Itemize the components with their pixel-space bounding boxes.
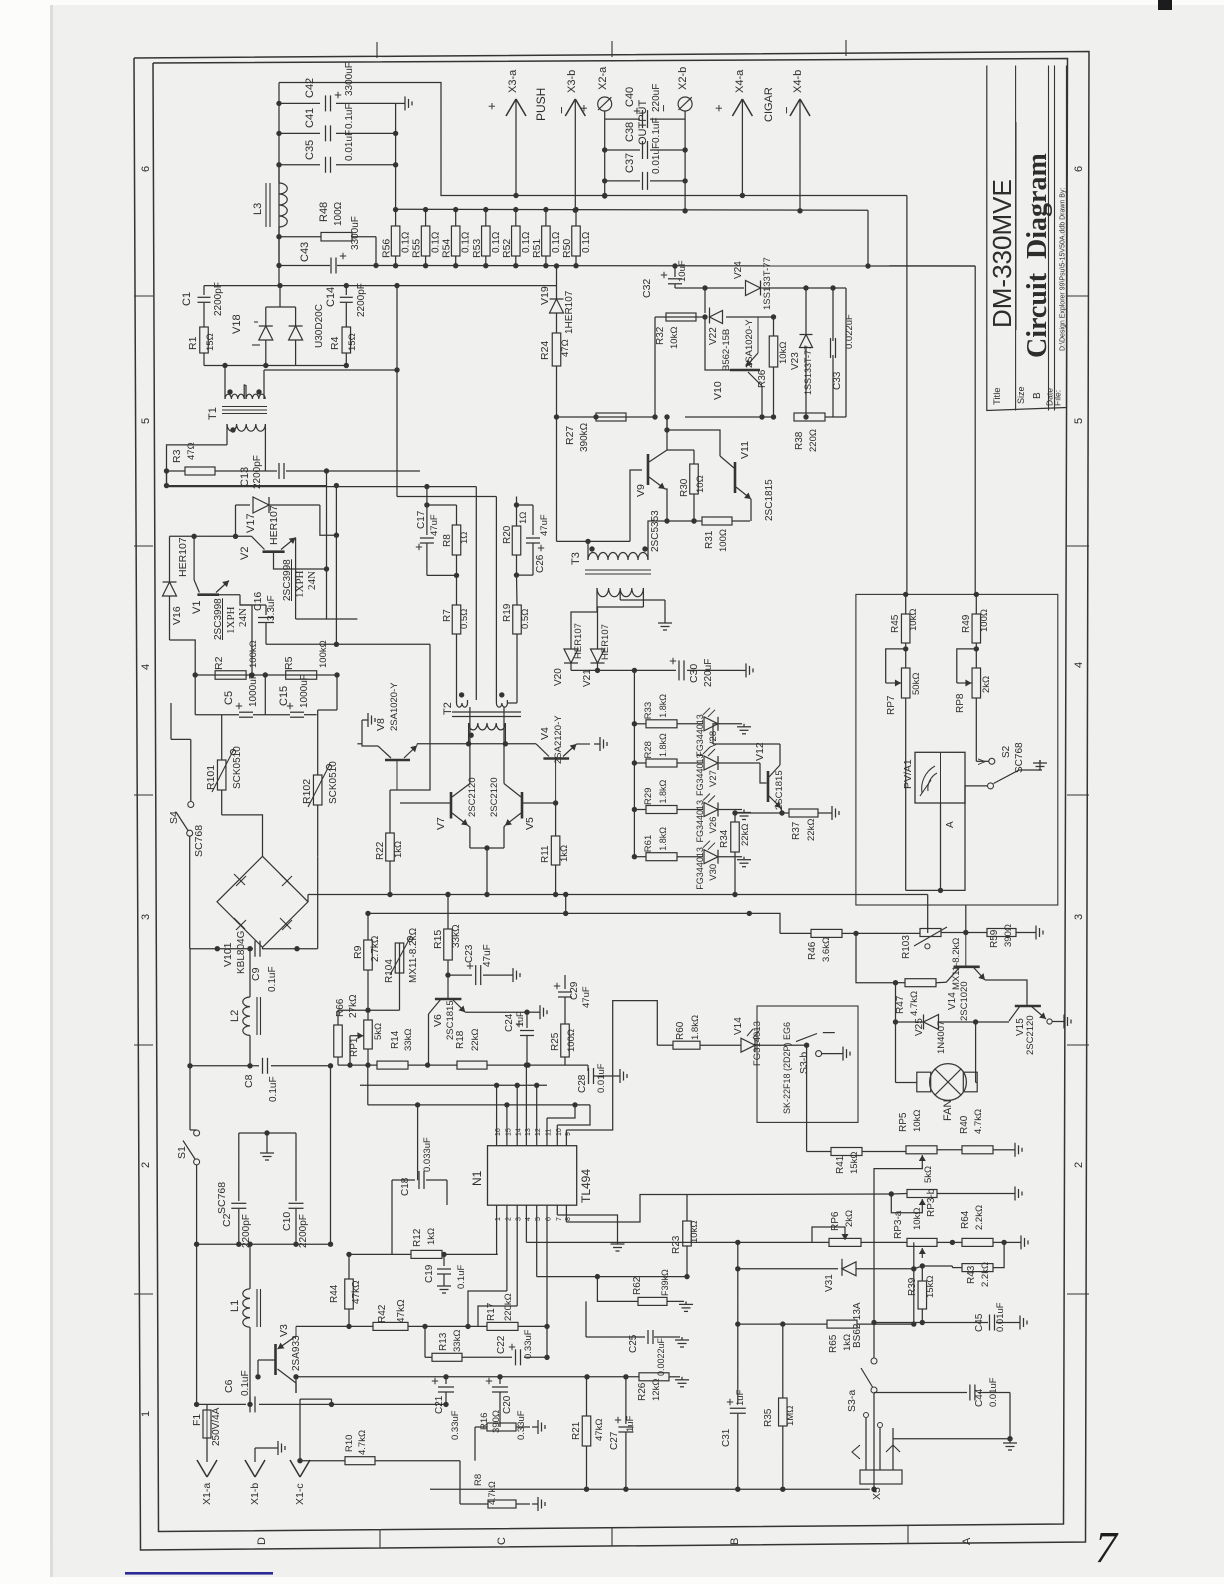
wire left rail 3 — [196, 1244, 198, 1404]
svg-text:C22: C22 — [496, 1335, 507, 1354]
capacitor C2 — [231, 1202, 246, 1204]
svg-text:0.01uF: 0.01uF — [651, 143, 662, 174]
svg-text:V4: V4 — [539, 727, 551, 740]
wire pin15 — [506, 1105, 508, 1138]
svg-text:R60: R60 — [675, 1021, 686, 1040]
resistor R54 — [455, 210, 457, 226]
svg-text:R103: R103 — [901, 935, 912, 959]
capacitor C20 — [499, 1377, 501, 1384]
svg-text:V26: V26 — [708, 817, 719, 834]
wire bus 1104 — [367, 1065, 369, 1105]
resistor R62 — [638, 1297, 667, 1305]
resistor R5 — [286, 671, 317, 680]
svg-text:1N4007: 1N4007 — [936, 1021, 947, 1054]
fuse F1 — [206, 1404, 208, 1410]
svg-text:R61: R61 — [643, 835, 654, 852]
resistor R52 — [515, 210, 517, 226]
zone tick left — [134, 1044, 153, 1046]
ground X1-b — [255, 1447, 272, 1449]
connector X1-c — [299, 1399, 301, 1462]
svg-text:1.8kΩ: 1.8kΩ — [690, 1015, 701, 1040]
svg-text:R28: R28 — [643, 741, 654, 758]
svg-text:1kΩ: 1kΩ — [426, 1228, 437, 1245]
resistor R53 — [485, 210, 487, 226]
svg-text:X3-b: X3-b — [566, 70, 578, 93]
svg-text:4.7kΩ: 4.7kΩ — [973, 1109, 984, 1134]
svg-text:V22: V22 — [708, 327, 719, 345]
svg-text:15Ω: 15Ω — [347, 333, 358, 351]
svg-text:RP7: RP7 — [886, 695, 897, 715]
svg-text:12kΩ: 12kΩ — [651, 1379, 662, 1401]
wire cap row — [194, 675, 196, 715]
wire input left rail — [189, 949, 191, 1066]
svg-text:R1: R1 — [187, 336, 199, 350]
svg-text:1.8kΩ: 1.8kΩ — [658, 733, 668, 757]
wire R46 feed — [749, 913, 780, 933]
svg-text:2SA1020-Y: 2SA1020-Y — [744, 319, 755, 368]
svg-text:2SA2120-Y: 2SA2120-Y — [553, 715, 564, 764]
svg-text:V: V — [977, 758, 988, 765]
svg-text:100Ω: 100Ω — [333, 201, 344, 226]
svg-text:RP5: RP5 — [898, 1112, 909, 1132]
svg-text:2SA1020-Y: 2SA1020-Y — [389, 682, 400, 731]
zone tick left — [134, 545, 153, 547]
resistor R51 — [545, 210, 547, 226]
title block cell line — [1048, 122, 1050, 245]
svg-text:C19: C19 — [424, 1264, 435, 1283]
svg-text:1.8kΩ: 1.8kΩ — [658, 827, 668, 851]
svg-text:V2: V2 — [239, 547, 251, 560]
svg-text:C18: C18 — [400, 1177, 411, 1196]
wire C45 row — [874, 1322, 922, 1324]
diode V16 — [169, 536, 171, 582]
wire output plus rail — [279, 83, 516, 196]
svg-text:C15: C15 — [278, 686, 290, 706]
svg-text:R10: R10 — [344, 1435, 355, 1452]
svg-text:0.0022uF: 0.0022uF — [656, 1337, 666, 1376]
capacitor C45 — [989, 1315, 991, 1331]
wire V6 emitter — [465, 1011, 527, 1013]
resistor R16 — [475, 1426, 487, 1428]
svg-text:4: 4 — [1073, 662, 1085, 668]
resistor R64 — [962, 1238, 993, 1246]
resistor R30 — [693, 450, 695, 464]
svg-text:R20: R20 — [502, 525, 513, 544]
transistor V11 2SC1815 — [734, 462, 737, 493]
svg-text:V23: V23 — [790, 352, 801, 370]
wire V15 base row — [896, 1021, 924, 1023]
wire minus down — [974, 266, 976, 592]
svg-text:+: + — [576, 104, 591, 112]
svg-text:N1: N1 — [470, 1170, 484, 1186]
wire 1242 bus — [738, 1241, 829, 1243]
svg-text:4.7kΩ: 4.7kΩ — [357, 1430, 368, 1455]
resistor R41 — [831, 1148, 862, 1156]
svg-text:File:: File: — [1053, 390, 1063, 406]
svg-text:R11: R11 — [540, 845, 551, 863]
svg-text:R64: R64 — [960, 1210, 971, 1229]
svg-text:Title: Title — [992, 387, 1003, 405]
svg-text:3.6kΩ: 3.6kΩ — [821, 937, 832, 962]
svg-text:47uF: 47uF — [539, 514, 550, 536]
zone tick right — [1067, 545, 1089, 547]
resistor R38 — [794, 413, 825, 421]
svg-text:C29: C29 — [569, 981, 580, 1000]
svg-text:R59: R59 — [989, 929, 1000, 948]
capacitor C19 — [443, 1254, 445, 1266]
resistor R20 — [516, 505, 518, 526]
svg-text:C40: C40 — [624, 87, 636, 107]
capacitor C9 — [254, 941, 256, 957]
wire bridge bottom — [262, 947, 264, 948]
svg-text:A: A — [945, 821, 956, 828]
diode V21 — [597, 642, 599, 649]
title block row line — [1048, 66, 1050, 411]
ground output filter — [396, 102, 399, 104]
resistor R26 — [639, 1373, 669, 1381]
resistor R44 — [348, 1254, 350, 1279]
svg-text:10kΩ: 10kΩ — [908, 609, 919, 631]
wire meter bottom — [940, 803, 942, 890]
capacitor C5 — [239, 711, 253, 713]
wire RP1 bottom rail — [338, 1064, 377, 1066]
resistor R34 — [734, 813, 736, 822]
resistor R11 — [555, 803, 557, 836]
capacitor C38 — [605, 149, 640, 151]
potentiometer RP8 — [972, 668, 981, 698]
svg-text:R26: R26 — [637, 1382, 648, 1401]
svg-text:V17: V17 — [245, 513, 257, 533]
wire C30 line — [571, 669, 676, 671]
svg-text:V14: V14 — [733, 1017, 744, 1035]
svg-text:V30: V30 — [708, 864, 719, 881]
bridge rectifier V101 — [217, 856, 308, 947]
potentiometer RP7 — [901, 668, 910, 698]
wire V3 base — [258, 1359, 276, 1361]
wire pin7 ground — [556, 1212, 558, 1215]
svg-text:Circuit Diagram: Circuit Diagram — [1022, 153, 1053, 358]
capacitor C28 — [565, 1064, 588, 1066]
svg-text:SK-22F18 (2D2P) EG6: SK-22F18 (2D2P) EG6 — [782, 1022, 792, 1114]
svg-text:47Ω: 47Ω — [186, 442, 197, 460]
svg-text:0.01uF: 0.01uF — [995, 1302, 1006, 1332]
svg-text:FG344013: FG344013 — [695, 753, 705, 796]
svg-text:47kΩ: 47kΩ — [594, 1419, 605, 1441]
wire V31 row right — [913, 1242, 915, 1268]
transformer T3 primary — [587, 541, 589, 560]
resistor R25 — [564, 1010, 566, 1024]
resistor R35 — [782, 1324, 784, 1398]
svg-text:V11: V11 — [739, 441, 751, 459]
capacitor C17 — [426, 505, 428, 535]
wire V12 collector — [713, 743, 780, 745]
wire bus894 to R103row — [927, 895, 929, 934]
svg-text:X4-b: X4-b — [792, 70, 804, 93]
svg-text:2SC3998: 2SC3998 — [213, 598, 224, 640]
svg-text:24N: 24N — [306, 571, 318, 590]
wire RP3b row — [687, 1193, 891, 1196]
resistor R59 — [966, 932, 987, 934]
svg-text:7: 7 — [556, 1217, 563, 1221]
svg-text:V12: V12 — [754, 742, 766, 761]
zone tick left — [134, 1293, 153, 1295]
wire rail to snubber — [278, 266, 280, 286]
svg-text:V3: V3 — [278, 1324, 290, 1337]
svg-text:S4: S4 — [168, 811, 180, 824]
IC N1 top pins — [496, 1138, 498, 1146]
svg-text:220uF: 220uF — [703, 659, 714, 687]
svg-text:100kΩ: 100kΩ — [248, 640, 259, 668]
svg-text:R4: R4 — [329, 336, 341, 350]
wire plus bus — [516, 195, 907, 197]
svg-text:C23: C23 — [464, 944, 475, 963]
zone tick right — [1067, 295, 1089, 297]
resistor R47 — [936, 981, 946, 983]
svg-text:22kΩ: 22kΩ — [806, 819, 817, 841]
svg-text:R27: R27 — [564, 426, 576, 445]
svg-text:2: 2 — [1073, 1162, 1085, 1168]
svg-text:1kΩ: 1kΩ — [559, 845, 570, 862]
wire right rail input — [330, 1066, 332, 1244]
wire S2 V — [976, 760, 989, 762]
wire C6 row — [197, 1403, 246, 1405]
resistor R46 — [780, 932, 811, 934]
svg-text:3: 3 — [140, 914, 152, 920]
svg-text:2.2kΩ: 2.2kΩ — [980, 1262, 991, 1287]
svg-text:C5: C5 — [223, 691, 235, 705]
svg-text:SC768: SC768 — [193, 825, 205, 857]
svg-text:R34: R34 — [719, 829, 730, 848]
potentiometer RP5 — [906, 1146, 937, 1154]
svg-text:15kΩ: 15kΩ — [925, 1276, 936, 1298]
capacitor C33 — [832, 288, 834, 341]
svg-text:1Ω: 1Ω — [518, 512, 529, 524]
capacitor C44 — [874, 1392, 930, 1394]
svg-text:47kΩ: 47kΩ — [396, 1299, 407, 1323]
wire emitter rail — [417, 743, 536, 745]
svg-text:0.01uF: 0.01uF — [988, 1377, 999, 1407]
svg-text:C20: C20 — [502, 1395, 513, 1414]
capacitor C31 — [737, 1242, 739, 1404]
wire pin9 — [565, 1130, 567, 1138]
svg-text:L1: L1 — [229, 1300, 241, 1312]
svg-text:33kΩ: 33kΩ — [452, 1330, 463, 1352]
svg-text:5: 5 — [140, 418, 152, 424]
thermistor R103 — [920, 929, 941, 937]
svg-text:C24: C24 — [504, 1013, 515, 1032]
svg-text:RP8: RP8 — [955, 693, 966, 713]
connector X2-b — [684, 111, 686, 211]
svg-text:R47: R47 — [895, 995, 906, 1014]
transformer T2 secondary — [469, 723, 506, 730]
node — [276, 101, 281, 106]
connector X2-a — [604, 111, 606, 196]
svg-text:X5: X5 — [871, 1487, 883, 1500]
resistor R2 — [215, 671, 246, 680]
svg-text:R18: R18 — [455, 1030, 466, 1049]
resistor R9 — [367, 913, 369, 940]
wire T1 right pin — [264, 369, 397, 371]
svg-text:C10: C10 — [281, 1212, 293, 1231]
svg-text:C16: C16 — [252, 592, 264, 611]
svg-text:V27: V27 — [708, 770, 719, 787]
svg-text:2SC3998: 2SC3998 — [282, 559, 293, 601]
capacitor C32 — [674, 266, 676, 277]
svg-text:2200pF: 2200pF — [298, 1214, 309, 1248]
zone tick right — [1067, 794, 1089, 796]
svg-text:R33: R33 — [643, 702, 654, 719]
meter enclosure box — [856, 594, 1058, 905]
svg-text:0.33uF: 0.33uF — [523, 1329, 534, 1359]
svg-text:R36: R36 — [757, 369, 768, 388]
wire emitter join — [470, 847, 504, 849]
svg-text:3: 3 — [1073, 914, 1085, 920]
svg-text:V14: V14 — [947, 992, 958, 1010]
capacitor C35 — [279, 164, 320, 166]
svg-text:C6: C6 — [223, 1379, 235, 1393]
svg-text:F1: F1 — [191, 1414, 203, 1426]
svg-text:R24: R24 — [539, 341, 551, 360]
transistor V7 2SC2120 — [450, 792, 453, 819]
resistor R33 — [634, 723, 646, 725]
wire bank bottom rail — [376, 265, 975, 268]
svg-text:X1-c: X1-c — [294, 1483, 306, 1505]
title block cell line — [1015, 122, 1017, 330]
capacitor C37 — [605, 180, 640, 182]
border outer frame — [134, 52, 1089, 1551]
dual diode V18 — [279, 286, 281, 307]
svg-text:C1: C1 — [181, 292, 193, 306]
svg-text:V19: V19 — [539, 286, 551, 305]
svg-text:2: 2 — [140, 1162, 152, 1168]
capacitor C21 — [445, 1377, 447, 1384]
wire minus bus corner — [868, 210, 975, 266]
wire R13 row — [425, 1356, 432, 1358]
svg-text:R14: R14 — [390, 1030, 401, 1049]
svg-text:R56: R56 — [381, 239, 393, 258]
capacitor C18 — [392, 1179, 415, 1181]
zener V31 — [738, 1268, 838, 1270]
svg-text:X4-a: X4-a — [734, 69, 746, 93]
svg-text:R2: R2 — [213, 656, 225, 670]
svg-text:R23: R23 — [671, 1235, 682, 1254]
svg-text:R44: R44 — [329, 1284, 340, 1303]
resistor R61 — [634, 856, 646, 858]
svg-text:C45: C45 — [974, 1313, 985, 1332]
svg-text:0.1uF: 0.1uF — [344, 103, 355, 129]
svg-text:R45: R45 — [890, 614, 901, 633]
svg-text:V8: V8 — [375, 718, 387, 731]
svg-text:L3: L3 — [252, 203, 264, 215]
svg-text:C28: C28 — [577, 1074, 588, 1093]
resistor R4 — [342, 327, 351, 353]
capacitor C42 — [279, 102, 320, 104]
svg-text:S3-a: S3-a — [846, 1390, 858, 1412]
zone tick left — [134, 295, 153, 297]
transistor V12 2SC1815 — [718, 762, 760, 764]
svg-text:R52: R52 — [501, 239, 513, 258]
svg-text:−: − — [779, 106, 794, 114]
capacitor C40 — [605, 118, 640, 120]
resistor R36 — [773, 317, 775, 336]
svg-text:V18: V18 — [231, 314, 243, 334]
svg-text:2SA933: 2SA933 — [291, 1335, 302, 1371]
svg-text:10kΩ: 10kΩ — [689, 1221, 700, 1243]
svg-text:R25: R25 — [550, 1032, 561, 1051]
transistor V6 2SC1815 — [435, 998, 462, 1001]
wire pin1 — [496, 1212, 498, 1254]
resistor R7 — [456, 575, 458, 605]
transistor V2 2SC3998 — [263, 550, 285, 553]
svg-text:C31: C31 — [721, 1428, 732, 1447]
svg-text:R17: R17 — [486, 1302, 497, 1321]
wire bottom rail — [430, 1488, 870, 1490]
svg-text:1000uF: 1000uF — [299, 674, 310, 708]
svg-text:FG344013: FG344013 — [695, 800, 705, 843]
resistor R27 — [596, 413, 626, 421]
resistor R24 — [552, 333, 561, 366]
inductor L1 — [249, 1244, 251, 1289]
svg-text:V7: V7 — [435, 817, 447, 830]
wire pin5 — [536, 1212, 538, 1277]
zone tick right — [1067, 1044, 1089, 1046]
svg-text:1uF: 1uF — [625, 1415, 636, 1432]
switch S3-b — [796, 1034, 817, 1042]
svg-text:1: 1 — [140, 1411, 152, 1417]
svg-text:220kΩ: 220kΩ — [503, 1293, 514, 1321]
transformer T3 secondary — [597, 588, 643, 597]
svg-text:MX11-8.2kΩ: MX11-8.2kΩ — [408, 927, 419, 983]
resistor R29 — [634, 809, 646, 811]
wire pin14 — [516, 1085, 518, 1138]
svg-text:R31: R31 — [704, 530, 715, 549]
svg-text:R13: R13 — [438, 1332, 449, 1351]
IC N1 bottom pins — [496, 1205, 498, 1212]
svg-text:0.1uF: 0.1uF — [267, 966, 278, 992]
zone tick top — [611, 41, 613, 57]
svg-text:1.8kΩ: 1.8kΩ — [658, 694, 668, 718]
svg-text:0.33uF: 0.33uF — [450, 1410, 461, 1440]
wire R24 to T3 — [556, 417, 558, 541]
transformer T2 core — [452, 711, 521, 713]
svg-text:3.3uF: 3.3uF — [266, 595, 277, 621]
zener V23 — [805, 288, 807, 334]
svg-text:R3: R3 — [171, 449, 183, 463]
svg-text:4.7kΩ: 4.7kΩ — [487, 1481, 497, 1505]
svg-text:3300uF: 3300uF — [350, 216, 361, 250]
svg-text:R32: R32 — [655, 326, 666, 345]
svg-text:220Ω: 220Ω — [808, 429, 819, 452]
svg-text:R53: R53 — [471, 239, 483, 258]
svg-text:2SC2120: 2SC2120 — [467, 777, 478, 817]
svg-text:V20: V20 — [553, 668, 564, 686]
svg-text:B: B — [1032, 392, 1043, 399]
svg-text:R41: R41 — [835, 1155, 846, 1174]
wire y1010 — [368, 1009, 400, 1011]
capacitor C23 — [448, 974, 472, 976]
svg-text:F39kΩ: F39kΩ — [660, 1269, 670, 1296]
wire feedback F2 vertical — [396, 286, 398, 497]
svg-text:RP1: RP1 — [349, 1037, 360, 1057]
svg-text:RP6: RP6 — [830, 1211, 841, 1231]
wire snubber top rail — [204, 285, 557, 287]
svg-text:1uF: 1uF — [735, 1389, 746, 1406]
resistor R19 — [516, 575, 519, 605]
svg-text:1SS133T-77: 1SS133T-77 — [762, 257, 773, 310]
svg-text:15Ω: 15Ω — [205, 333, 216, 351]
zone tick top — [845, 40, 847, 56]
transformer T1 secondary — [227, 424, 265, 431]
